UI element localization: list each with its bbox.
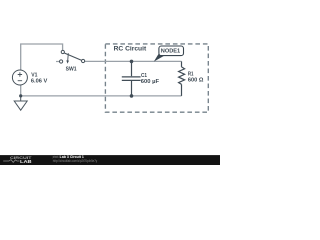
wire switch to R1 top (top rail): [85, 60, 182, 62]
svg-text:LAB: LAB: [20, 159, 32, 164]
switch arrow head: [66, 60, 69, 63]
switch SW1: [60, 50, 85, 63]
junction node C1 top: [130, 60, 134, 64]
resistor R1: [179, 61, 185, 96]
CircuitLab logo: [3, 155, 32, 164]
svg-text:SW1: SW1: [66, 67, 78, 73]
voltage source V1: [12, 70, 27, 85]
svg-text:600 µF: 600 µF: [141, 79, 160, 85]
junction node at V1/ground: [19, 94, 22, 97]
RC Circuit dashed enclosure box: [105, 44, 208, 112]
ground: [14, 96, 27, 110]
wire stub at SW1 open throw: [56, 61, 59, 63]
wire bottom rail: [21, 95, 182, 97]
svg-text:NODE1: NODE1: [161, 49, 180, 55]
NODE1 flag: [159, 46, 184, 56]
svg-text:600 Ω: 600 Ω: [188, 77, 204, 83]
svg-text:RC Circuit: RC Circuit: [114, 45, 147, 52]
capacitor C1: [122, 61, 141, 96]
wire V1 bottom to ground node: [20, 85, 22, 96]
svg-text:6.06 V: 6.06 V: [31, 79, 48, 85]
junction node C1 bottom: [130, 94, 134, 98]
svg-text:http://circuitlab.com/c/p2t76p: http://circuitlab.com/c/p2t76p4r5e7y: [53, 159, 98, 163]
watermark bar: [0, 155, 220, 165]
NODE1 flag pointer: [154, 54, 166, 62]
wire V1 top to switch: [21, 44, 63, 70]
